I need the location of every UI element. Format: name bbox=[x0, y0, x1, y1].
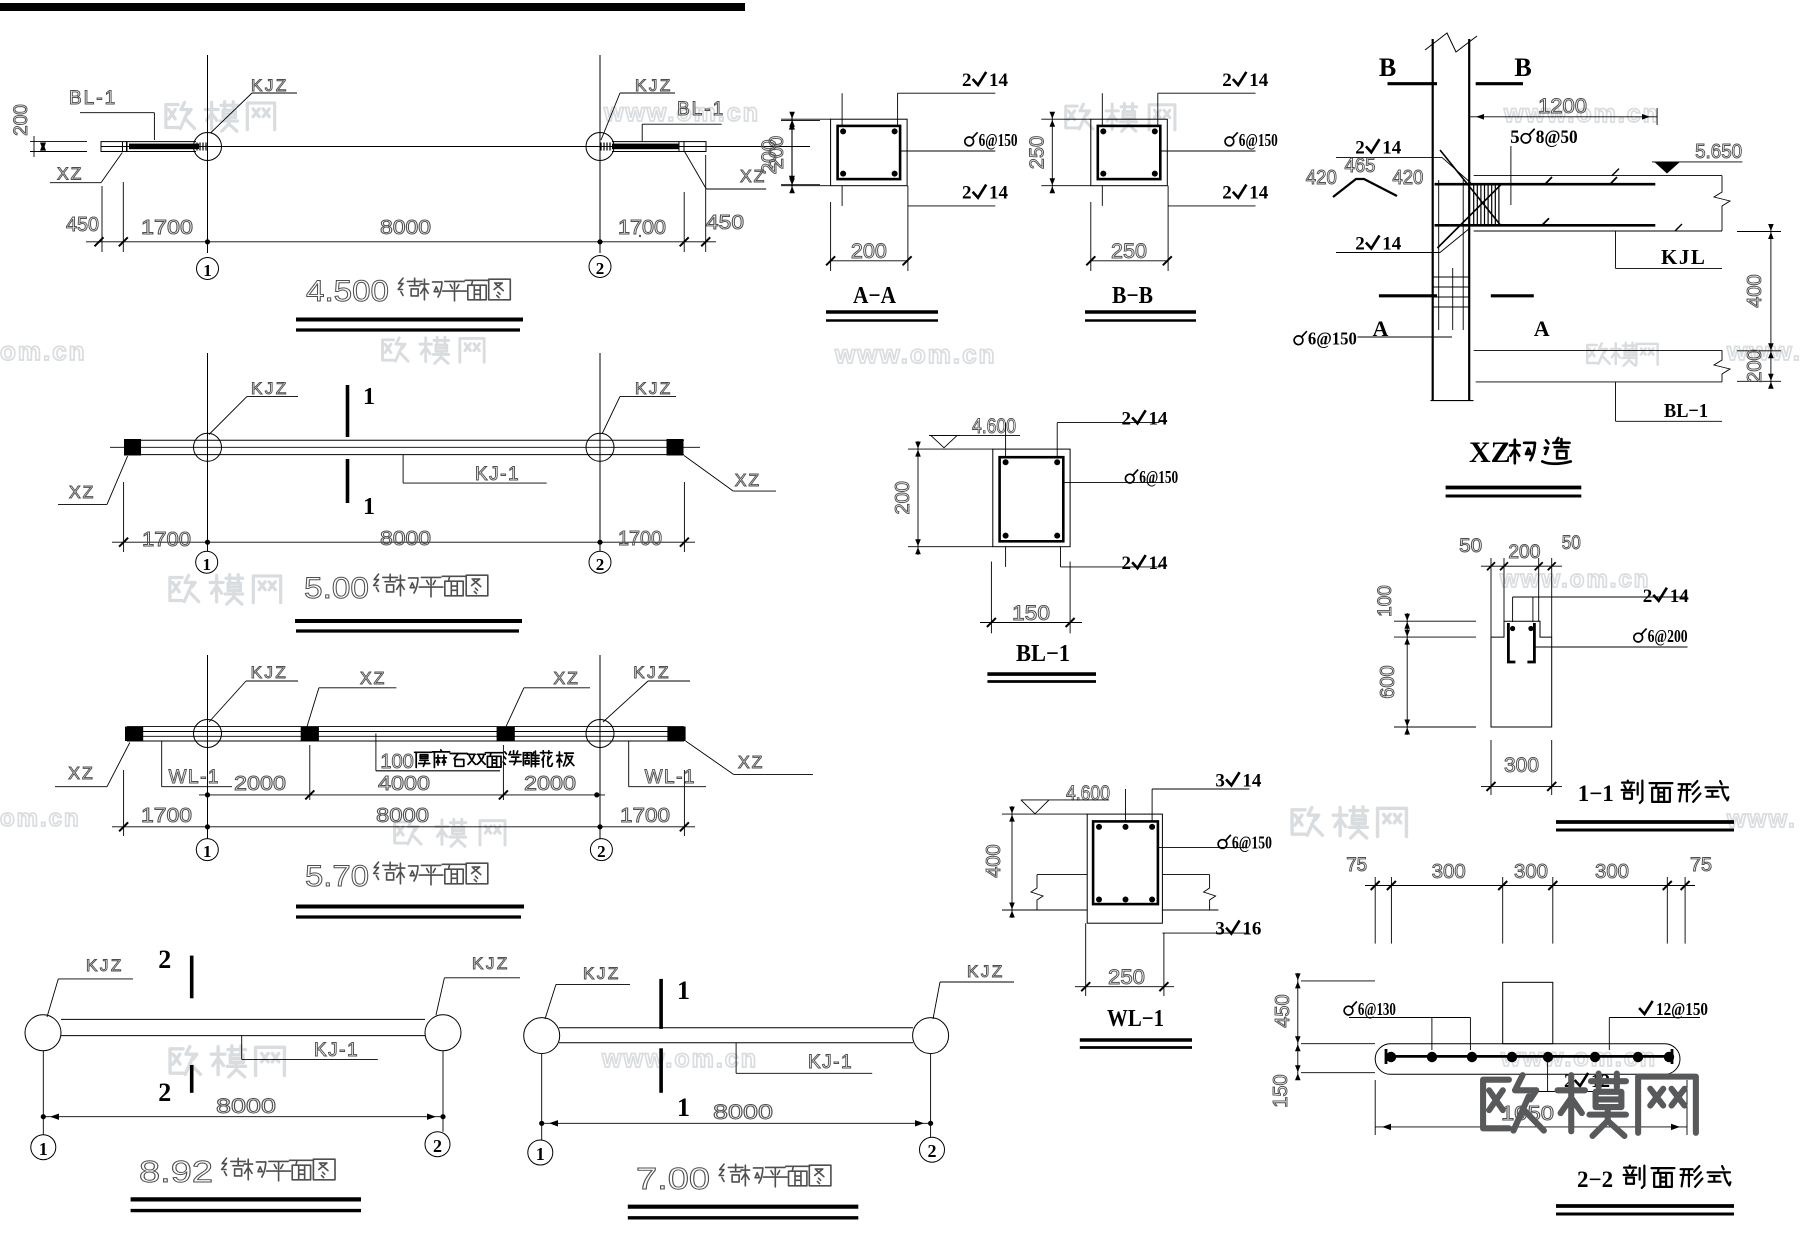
svg-text:14: 14 bbox=[1382, 137, 1402, 158]
svg-text:600: 600 bbox=[1377, 665, 1399, 698]
svg-text:6@130: 6@130 bbox=[1358, 999, 1396, 1019]
svg-text:2: 2 bbox=[1222, 183, 1232, 204]
svg-text:KJZ: KJZ bbox=[583, 964, 621, 983]
svg-text:2: 2 bbox=[597, 842, 606, 861]
svg-text:250: 250 bbox=[1111, 240, 1147, 263]
svg-text:2−2: 2−2 bbox=[1577, 1167, 1613, 1192]
svg-text:450: 450 bbox=[1272, 994, 1294, 1027]
svg-text:1200: 1200 bbox=[1538, 95, 1587, 118]
svg-text:www.: www. bbox=[1726, 806, 1797, 833]
svg-text:BL-1: BL-1 bbox=[677, 99, 725, 120]
svg-text:2: 2 bbox=[158, 1078, 171, 1107]
svg-text:4.500: 4.500 bbox=[306, 275, 389, 308]
svg-text:7.00: 7.00 bbox=[636, 1161, 710, 1196]
svg-text:450: 450 bbox=[66, 214, 99, 236]
svg-text:300: 300 bbox=[1432, 861, 1466, 883]
svg-text:5.650: 5.650 bbox=[1695, 141, 1742, 163]
svg-text:100: 100 bbox=[380, 751, 413, 773]
svg-text:XZ: XZ bbox=[69, 482, 95, 502]
svg-text:400: 400 bbox=[983, 844, 1005, 877]
svg-text:12@150: 12@150 bbox=[1656, 999, 1708, 1019]
svg-text:200: 200 bbox=[11, 104, 32, 136]
svg-text:A−A: A−A bbox=[853, 283, 897, 309]
svg-text:2: 2 bbox=[1643, 586, 1653, 607]
svg-text:6@150: 6@150 bbox=[1139, 467, 1178, 487]
svg-text:om.cn: om.cn bbox=[0, 336, 87, 366]
svg-text:50: 50 bbox=[1459, 536, 1482, 557]
svg-text:1: 1 bbox=[677, 1093, 690, 1122]
svg-text:KJZ: KJZ bbox=[251, 663, 289, 682]
svg-text:14: 14 bbox=[1149, 553, 1169, 574]
svg-text:1: 1 bbox=[203, 842, 212, 861]
svg-text:1: 1 bbox=[677, 976, 690, 1005]
svg-text:6@150: 6@150 bbox=[1239, 130, 1278, 150]
svg-text:50: 50 bbox=[1562, 533, 1581, 554]
svg-text:75: 75 bbox=[1690, 855, 1712, 876]
svg-text:XZ: XZ bbox=[68, 763, 94, 783]
svg-text:WL−1: WL−1 bbox=[1107, 1006, 1164, 1032]
svg-text:1700: 1700 bbox=[141, 217, 193, 239]
svg-text:KJ-1: KJ-1 bbox=[314, 1040, 359, 1061]
svg-text:200: 200 bbox=[766, 136, 788, 169]
svg-text:14: 14 bbox=[989, 70, 1009, 91]
svg-text:3: 3 bbox=[1215, 770, 1225, 791]
svg-text:14: 14 bbox=[989, 183, 1009, 204]
svg-text:14: 14 bbox=[1249, 183, 1269, 204]
svg-text:100: 100 bbox=[1375, 585, 1396, 617]
svg-text:KJ-1: KJ-1 bbox=[475, 464, 520, 485]
svg-text:75: 75 bbox=[1346, 855, 1367, 876]
svg-text:XZ: XZ bbox=[360, 668, 386, 688]
svg-text:om.cn: om.cn bbox=[0, 805, 81, 832]
svg-text:8000: 8000 bbox=[380, 217, 431, 239]
svg-text:250: 250 bbox=[1026, 136, 1048, 169]
svg-text:1: 1 bbox=[39, 1139, 48, 1159]
svg-text:300: 300 bbox=[1514, 861, 1548, 883]
svg-text:4.600: 4.600 bbox=[1066, 782, 1110, 805]
svg-text:4000: 4000 bbox=[378, 773, 430, 795]
svg-text:KJZ: KJZ bbox=[967, 962, 1005, 981]
svg-text:2: 2 bbox=[596, 259, 605, 278]
svg-text:8000: 8000 bbox=[380, 528, 431, 550]
svg-text:14: 14 bbox=[1249, 70, 1269, 91]
svg-text:2: 2 bbox=[158, 945, 171, 974]
svg-text:2: 2 bbox=[433, 1136, 442, 1156]
svg-text:150: 150 bbox=[1270, 1074, 1292, 1107]
svg-text:KJZ: KJZ bbox=[86, 956, 124, 975]
svg-text:2: 2 bbox=[962, 183, 972, 204]
svg-text:BL−1: BL−1 bbox=[1664, 400, 1708, 422]
svg-text:250: 250 bbox=[1108, 966, 1145, 989]
svg-text:14: 14 bbox=[1242, 770, 1262, 791]
svg-text:420: 420 bbox=[1306, 167, 1337, 189]
svg-text:8000: 8000 bbox=[376, 805, 429, 827]
svg-text:WL-1: WL-1 bbox=[169, 767, 220, 788]
svg-text:1: 1 bbox=[363, 494, 375, 520]
svg-text:KJZ: KJZ bbox=[633, 663, 671, 682]
svg-text:200: 200 bbox=[851, 240, 887, 263]
svg-text:B−B: B−B bbox=[1112, 283, 1153, 309]
svg-text:BL-1: BL-1 bbox=[69, 88, 117, 109]
svg-text:4.600: 4.600 bbox=[972, 415, 1016, 438]
svg-text:www.om.cn: www.om.cn bbox=[1499, 566, 1650, 593]
svg-text:KJZ: KJZ bbox=[472, 954, 510, 973]
svg-text:200: 200 bbox=[1508, 542, 1540, 563]
svg-text:KJZ: KJZ bbox=[251, 379, 289, 398]
svg-text:1700: 1700 bbox=[618, 217, 666, 239]
svg-text:6@150: 6@150 bbox=[979, 130, 1018, 150]
svg-text:14: 14 bbox=[1149, 408, 1169, 429]
svg-text:B: B bbox=[1514, 53, 1531, 82]
svg-text:2: 2 bbox=[1122, 553, 1132, 574]
svg-text:XZ: XZ bbox=[738, 752, 764, 772]
svg-text:1: 1 bbox=[536, 1144, 545, 1164]
svg-text:KJZ: KJZ bbox=[251, 76, 289, 95]
svg-text:XZ: XZ bbox=[57, 164, 83, 184]
svg-text:8000: 8000 bbox=[216, 1095, 276, 1118]
svg-text:1700: 1700 bbox=[142, 529, 191, 551]
svg-text:16: 16 bbox=[1242, 919, 1261, 940]
svg-text:1−1: 1−1 bbox=[1578, 781, 1614, 806]
svg-text:300: 300 bbox=[1595, 861, 1629, 883]
svg-text:420: 420 bbox=[1392, 167, 1423, 189]
svg-text:6@150: 6@150 bbox=[1308, 329, 1357, 349]
svg-text:400: 400 bbox=[1744, 274, 1766, 307]
svg-text:465: 465 bbox=[1345, 155, 1376, 177]
svg-text:2000: 2000 bbox=[234, 773, 286, 795]
svg-text:1: 1 bbox=[363, 384, 375, 410]
svg-text:XZ: XZ bbox=[554, 668, 580, 688]
svg-text:300: 300 bbox=[1504, 754, 1539, 777]
svg-text:8@50: 8@50 bbox=[1536, 127, 1578, 148]
svg-text:2000: 2000 bbox=[524, 773, 576, 795]
svg-text:WL-1: WL-1 bbox=[645, 767, 696, 788]
svg-text:2: 2 bbox=[1222, 70, 1232, 91]
svg-text:1: 1 bbox=[202, 555, 211, 574]
svg-text:6@200: 6@200 bbox=[1648, 626, 1688, 646]
svg-text:KJL: KJL bbox=[1661, 245, 1706, 269]
svg-text:XZ: XZ bbox=[1469, 436, 1511, 469]
svg-text:200: 200 bbox=[1744, 349, 1766, 382]
svg-text:2: 2 bbox=[1355, 234, 1365, 255]
svg-text:XZ: XZ bbox=[735, 470, 761, 490]
svg-text:5.00: 5.00 bbox=[304, 572, 369, 605]
svg-text:A: A bbox=[1534, 316, 1550, 341]
svg-text:1700: 1700 bbox=[618, 528, 662, 550]
svg-text:2: 2 bbox=[962, 70, 972, 91]
svg-text:3: 3 bbox=[1215, 919, 1225, 940]
svg-text:www.om.cn: www.om.cn bbox=[601, 1045, 758, 1073]
svg-text:KJZ: KJZ bbox=[635, 379, 673, 398]
svg-text:www.om.cn: www.om.cn bbox=[834, 339, 997, 369]
svg-text:14: 14 bbox=[1670, 586, 1690, 607]
svg-text:2: 2 bbox=[1122, 408, 1132, 429]
svg-text:5.70: 5.70 bbox=[305, 860, 369, 893]
svg-text:B: B bbox=[1379, 53, 1396, 82]
svg-text:8.92: 8.92 bbox=[139, 1154, 213, 1189]
svg-text:14: 14 bbox=[1382, 234, 1402, 255]
svg-text:1: 1 bbox=[203, 261, 212, 280]
svg-text:1700: 1700 bbox=[620, 805, 670, 827]
svg-text:1700: 1700 bbox=[141, 805, 192, 827]
svg-text:BL−1: BL−1 bbox=[1016, 641, 1070, 667]
svg-text:2: 2 bbox=[928, 1141, 937, 1161]
svg-text:200: 200 bbox=[892, 481, 914, 514]
svg-text:6@150: 6@150 bbox=[1232, 832, 1272, 852]
svg-text:8000: 8000 bbox=[713, 1101, 773, 1124]
svg-text:KJZ: KJZ bbox=[635, 76, 673, 95]
svg-text:450: 450 bbox=[706, 212, 744, 234]
svg-text:5: 5 bbox=[1510, 127, 1520, 148]
svg-text:2: 2 bbox=[596, 555, 605, 574]
svg-text:KJ-1: KJ-1 bbox=[808, 1052, 853, 1073]
svg-text:150: 150 bbox=[1012, 602, 1050, 625]
